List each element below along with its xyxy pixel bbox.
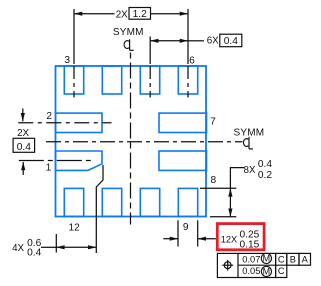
svg-text:4X: 4X — [12, 243, 24, 254]
svg-text:3: 3 — [64, 55, 70, 66]
svg-text:A: A — [302, 254, 309, 264]
svg-text:SYMM: SYMM — [233, 127, 264, 138]
centerline pin6 — [187, 66, 189, 98]
dimension 2X 0.4 left: up arrow — [22, 162, 24, 175]
extension line body bottom edge (8X dim) — [210, 216, 236, 218]
horizontal symmetry centerline — [46, 141, 243, 143]
package body outline — [56, 66, 207, 217]
svg-text:0.4: 0.4 — [17, 142, 31, 153]
pin 6 pad — [178, 66, 197, 94]
svg-text:0.2: 0.2 — [258, 170, 272, 181]
svg-text:C: C — [278, 266, 285, 276]
dimension 2X 1.2 line — [74, 13, 115, 15]
pin 9 pad — [178, 188, 197, 216]
dimension 4X 0.6/0.4 — [41, 246, 56, 248]
svg-text:0.05: 0.05 — [242, 266, 260, 276]
extension line pin9 left — [177, 220, 179, 246]
dimension 6X 0.4 — [150, 40, 188, 42]
pin 5 pad — [140, 66, 159, 94]
pin 10 pad — [140, 188, 159, 216]
svg-text:2X: 2X — [116, 9, 128, 20]
svg-text:M: M — [263, 254, 271, 264]
svg-text:9: 9 — [183, 222, 189, 233]
svg-text:1.2: 1.2 — [133, 9, 147, 20]
extension line left of body (4X dim) — [55, 234, 57, 253]
svg-text:8X: 8X — [244, 165, 256, 176]
boxed value 1.2 — [129, 8, 151, 20]
jogged extension line from pin1 — [96, 165, 103, 253]
pin 7 pad — [159, 113, 207, 132]
dimension 12X 0.25/0.15 arrows — [163, 238, 178, 240]
extension line pin9 right — [197, 220, 199, 246]
svg-text:2: 2 — [46, 111, 52, 122]
pin 11 pad — [102, 188, 121, 216]
svg-text:B: B — [290, 254, 296, 264]
svg-text:2X: 2X — [17, 128, 29, 139]
boxed value 0.4 (left) — [13, 138, 34, 152]
dimension 2X 0.4 left: down arrow — [22, 109, 24, 122]
feature control frame — [217, 253, 310, 277]
centerline pin2 — [18, 122, 111, 124]
red highlight box — [217, 224, 264, 250]
svg-text:C: C — [278, 254, 285, 264]
svg-text:M: M — [263, 267, 271, 277]
svg-text:0.4: 0.4 — [27, 248, 41, 259]
pin 8 pad — [159, 151, 207, 170]
pin 4 pad — [102, 66, 121, 94]
pin 12 pad — [64, 188, 83, 216]
svg-text:0.4: 0.4 — [224, 36, 238, 47]
svg-text:12X: 12X — [221, 235, 237, 245]
pin 3 pad — [64, 66, 83, 94]
svg-text:SYMM: SYMM — [113, 27, 144, 38]
svg-text:0.15: 0.15 — [240, 239, 260, 250]
centerline symbol top — [124, 39, 133, 50]
svg-text:8: 8 — [210, 175, 216, 186]
vertical symmetry centerline — [130, 53, 132, 225]
pin 1 pad (chamfered) — [56, 151, 103, 170]
extension line pin3 center — [73, 9, 75, 64]
extension line pin5 center — [149, 37, 151, 65]
centerline pin1 — [19, 160, 92, 162]
pin 2 pad — [56, 113, 103, 132]
svg-text:12: 12 — [69, 222, 81, 233]
centerline pin5 — [149, 66, 151, 98]
svg-text:7: 7 — [210, 117, 216, 128]
extension line pin6 center — [187, 9, 189, 64]
svg-text:6: 6 — [189, 55, 195, 66]
position symbol — [222, 260, 233, 271]
svg-text:6X: 6X — [207, 35, 219, 46]
svg-text:0.4: 0.4 — [258, 159, 272, 170]
extension line bottom pins top edge (8X dim) — [200, 187, 236, 189]
svg-text:1: 1 — [46, 163, 52, 174]
svg-text:0.07: 0.07 — [242, 254, 260, 264]
dimension 8X 0.4/0.2 — [229, 188, 231, 217]
centerline symbol right — [244, 137, 253, 149]
centerline pin3 — [73, 66, 75, 98]
boxed value 0.4 (top) — [220, 34, 242, 47]
